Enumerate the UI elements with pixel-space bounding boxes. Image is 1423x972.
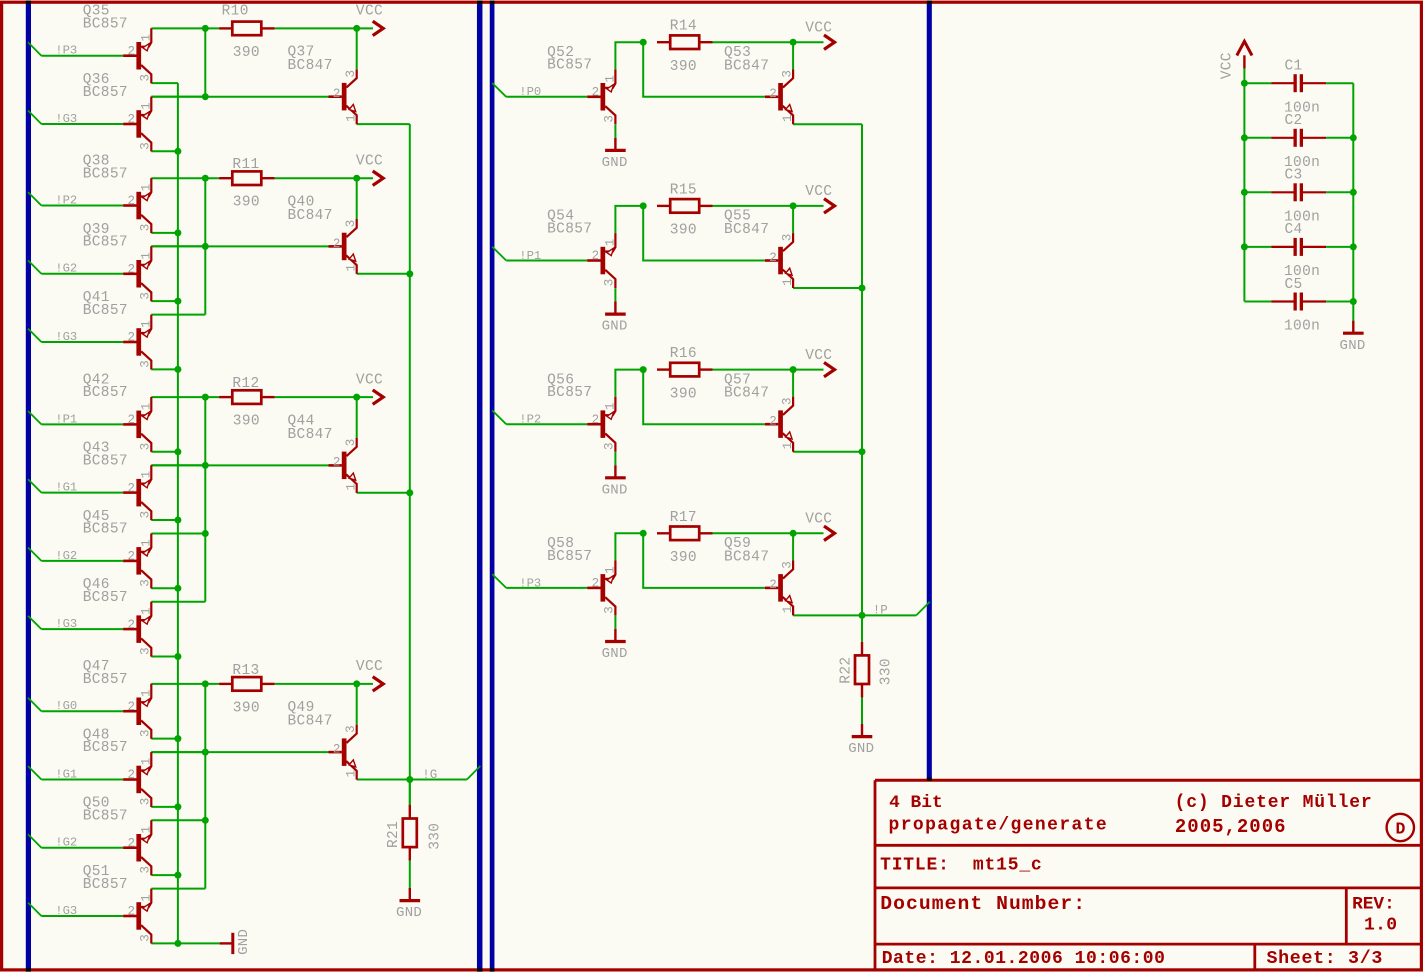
svg-text:GND: GND: [236, 929, 252, 955]
wire R21 to GND: [409, 861, 411, 888]
svg-text:3: 3: [139, 142, 153, 150]
logo circled D: [1387, 814, 1414, 841]
svg-text:R10: R10: [222, 4, 249, 20]
svg-text:3: 3: [139, 647, 153, 655]
wire Q49 base: [151, 751, 328, 753]
transistor Q59 (BC847 NPN): [765, 561, 793, 616]
R15 value label 390: [670, 223, 697, 239]
svg-text:3: 3: [780, 397, 794, 405]
svg-text:1: 1: [781, 114, 795, 122]
title text (c) Dieter Mueller: [1175, 793, 1373, 813]
svg-text:GND: GND: [396, 905, 422, 921]
junction ground rail at Q42.3: [174, 448, 181, 455]
title block frame: [875, 780, 1421, 970]
wire output rail !G (x410): [409, 124, 411, 805]
junction ground rail at Q51.3: [174, 940, 181, 947]
svg-text:3: 3: [344, 439, 358, 447]
wire R17 to VCC node: [713, 532, 794, 534]
svg-text:2: 2: [128, 905, 136, 919]
transistor Q35 (BC857 PNP): [123, 28, 151, 83]
Q43 labels: [83, 441, 128, 470]
Q42 pin numbers: [128, 403, 154, 451]
wire Q49.3 to VCC: [356, 684, 358, 725]
C5 value label 100n: [1284, 319, 1320, 335]
Q35 pin numbers: [128, 34, 154, 82]
wire Q38.1 to R11: [151, 177, 219, 179]
Q52 pin numbers: [592, 75, 618, 123]
resistor R21: [403, 805, 417, 861]
svg-text:1: 1: [139, 471, 153, 479]
svg-text:VCC: VCC: [805, 20, 832, 36]
svg-text:VCC: VCC: [1219, 52, 1235, 79]
wire Q48.1: [151, 751, 205, 753]
wire !P to bus tap: [862, 614, 916, 616]
svg-text:BC857: BC857: [83, 235, 128, 251]
wire net !G3 to Q41.2: [41, 341, 123, 343]
Q46 pin numbers: [128, 607, 154, 655]
transistor Q40 (BC847 NPN): [329, 219, 357, 274]
wire Q40 base: [151, 245, 328, 247]
wire net !P3 to Q35.2: [41, 55, 123, 57]
wire R15 node down to Q55 base: [643, 206, 765, 261]
svg-text:Sheet: 3/3: Sheet: 3/3: [1267, 949, 1384, 969]
resistor R10: [219, 22, 275, 36]
svg-text:BC847: BC847: [724, 549, 769, 565]
svg-text:!G: !G: [422, 768, 437, 782]
svg-text:2: 2: [128, 768, 136, 782]
svg-text:BC857: BC857: [83, 453, 128, 469]
svg-text:2: 2: [128, 194, 136, 208]
wire Q37.3 to VCC: [356, 28, 358, 69]
wire Q42.1 to R12: [151, 396, 219, 398]
svg-text:1: 1: [139, 607, 153, 615]
Q44 labels: [288, 413, 333, 443]
Q36 pin numbers: [128, 102, 154, 150]
svg-text:BC847: BC847: [724, 222, 769, 238]
Q46 labels: [83, 577, 128, 606]
svg-text:R12: R12: [232, 376, 259, 392]
resistor R17: [657, 527, 713, 541]
transistor Q44 (BC847 NPN): [329, 438, 357, 493]
wire Q53.1 to output rail: [793, 123, 862, 125]
VCC label at R13: [356, 659, 383, 675]
svg-text:2: 2: [333, 742, 341, 756]
transistor Q54 (BC857 PNP): [587, 233, 615, 288]
net label !G1: [55, 481, 77, 495]
junction at R12 left: [202, 394, 209, 401]
wire Q50.3 to ground rail: [151, 874, 178, 876]
svg-text:390: 390: [233, 414, 260, 430]
net label !G1: [55, 767, 77, 781]
resistor R12: [219, 390, 275, 404]
wire C5 right to GND: [1352, 302, 1354, 321]
svg-text:!G2: !G2: [55, 836, 77, 850]
R21 name label: [386, 821, 402, 848]
bus/frame overlap ticks: [26, 1, 932, 972]
C4 name label: [1285, 222, 1303, 238]
Q42 labels: [83, 372, 128, 401]
R13 value label 390: [233, 700, 260, 716]
Q56 pin numbers: [592, 402, 618, 450]
title text Date: 12.01.2006 10:06:00: [882, 949, 1166, 969]
VCC label at R11: [356, 154, 383, 170]
wire Q39.3 to ground rail: [151, 300, 178, 302]
svg-text:2: 2: [128, 262, 136, 276]
wire net !G3 to Q51.2: [41, 915, 123, 917]
wire Q36.3 to ground rail: [151, 150, 178, 152]
svg-text:1: 1: [139, 758, 153, 766]
junction ground rail at Q46.3: [174, 653, 181, 660]
svg-text:2: 2: [128, 44, 136, 58]
wire Q49.1 to output rail: [357, 779, 410, 781]
svg-text:VCC: VCC: [805, 184, 832, 200]
svg-text:BC847: BC847: [288, 427, 333, 443]
bus tap for net !G2: [28, 834, 41, 847]
svg-text:2: 2: [333, 237, 341, 251]
svg-text:3: 3: [603, 115, 617, 123]
R17 name label: [670, 510, 697, 526]
VCC label at R16: [805, 348, 832, 364]
bus tap for net !P2: [492, 410, 506, 424]
Q37 labels: [288, 45, 333, 74]
svg-text:3: 3: [139, 360, 153, 368]
svg-text:2: 2: [128, 113, 136, 127]
wire output rail !P (x862): [861, 124, 863, 642]
svg-text:BC847: BC847: [724, 386, 769, 402]
svg-text:R22: R22: [838, 657, 854, 684]
net label !P2: [55, 193, 77, 207]
wire Q40.1 to output rail: [357, 273, 410, 275]
svg-text:2: 2: [128, 331, 136, 345]
svg-text:R11: R11: [232, 157, 259, 173]
Q41 pin numbers: [128, 320, 154, 368]
svg-text:GND: GND: [848, 741, 874, 757]
resistor R13: [219, 677, 275, 691]
title text Document Number:: [880, 893, 1086, 915]
junction ground rail at Q48.3: [174, 803, 181, 810]
svg-text:1: 1: [781, 442, 795, 450]
bus B2b (input bus middle section): [490, 1, 495, 972]
svg-text:2: 2: [128, 550, 136, 564]
net label !G3: [55, 904, 77, 918]
VCC symbol at R14: [793, 35, 834, 49]
VCC symbol at R16: [793, 362, 834, 376]
junction Q37 base node: [202, 93, 209, 100]
transistor Q56 (BC857 PNP): [587, 397, 615, 452]
Q55 labels: [724, 209, 769, 238]
svg-text:C5: C5: [1285, 277, 1303, 293]
svg-text:GND: GND: [602, 319, 628, 335]
bus tap for net !G1: [28, 766, 41, 779]
svg-text:1: 1: [603, 566, 617, 574]
ground GND below Q58: [602, 629, 628, 662]
ground GND below Q56: [602, 465, 628, 498]
transistor Q38 (BC857 PNP): [123, 178, 151, 233]
junction at R13 VCC node: [353, 680, 360, 687]
Q58 labels: [547, 536, 592, 565]
junction output rail at Q44.1: [406, 489, 413, 496]
capacitor C5: [1244, 293, 1353, 311]
svg-text:BC857: BC857: [83, 809, 128, 825]
svg-text:R17: R17: [670, 510, 697, 526]
R10 name label: [222, 4, 249, 20]
wire capacitor bank right rail: [1352, 83, 1354, 301]
junction at R11 VCC node: [353, 175, 360, 182]
junction at Q45.1: [202, 530, 209, 537]
wire Q54.3 to GND: [614, 288, 616, 301]
net label !P: [873, 604, 888, 618]
svg-text:390: 390: [233, 195, 260, 211]
svg-text:1: 1: [345, 264, 359, 272]
transistor Q51 (BC857 PNP): [123, 889, 151, 944]
Q50 pin numbers: [128, 826, 154, 874]
wire net !P1 to Q42.2: [41, 423, 123, 425]
ground GND at Q51.3 (rotated): [220, 929, 253, 955]
svg-text:!G3: !G3: [55, 617, 77, 631]
wire net !G0 to Q47.2: [41, 710, 123, 712]
bus tap for net !G0: [28, 698, 41, 711]
svg-text:3: 3: [603, 606, 617, 614]
R17 value label 390: [670, 550, 697, 566]
svg-text:1: 1: [139, 403, 153, 411]
VCC symbol at R17: [793, 526, 834, 540]
VCC symbol at R15: [793, 199, 834, 213]
junction output rail at Q59.1 (!P node): [859, 612, 866, 619]
svg-text:C1: C1: [1285, 59, 1303, 75]
junction Q40 base node: [202, 243, 209, 250]
svg-text:2: 2: [592, 577, 600, 591]
Q55 pin numbers: [769, 234, 795, 286]
C5 name label: [1285, 277, 1303, 293]
wire Q56.1 up to R16 node: [615, 370, 643, 397]
wire Q58.3 to GND: [614, 616, 616, 629]
junction R16 left node: [640, 366, 647, 373]
transistor Q58 (BC857 PNP): [587, 561, 615, 616]
wire R14 node down to Q53 base: [643, 42, 765, 97]
R11 name label: [232, 157, 259, 173]
capacitor C1: [1244, 74, 1353, 92]
transistor Q55 (BC847 NPN): [765, 233, 793, 288]
VCC label at R14: [805, 20, 832, 36]
svg-text:BC857: BC857: [547, 549, 592, 565]
wire R10 node rail (x205) from R10 to Q37 base: [204, 28, 206, 96]
bus tap for net !P2: [28, 192, 41, 205]
Q39 pin numbers: [128, 252, 154, 300]
svg-text:2: 2: [128, 618, 136, 632]
svg-text:2: 2: [592, 413, 600, 427]
Q56 labels: [547, 372, 592, 401]
R21 value label 330: [427, 823, 443, 850]
svg-text:C4: C4: [1285, 222, 1303, 238]
svg-text:BC847: BC847: [288, 208, 333, 224]
svg-text:BC857: BC857: [83, 85, 128, 101]
C2 name label: [1285, 113, 1303, 129]
net label !P1: [55, 412, 77, 426]
svg-text:3: 3: [139, 224, 153, 232]
svg-text:BC857: BC857: [83, 303, 128, 319]
svg-text:4 Bit: 4 Bit: [889, 793, 943, 813]
svg-text:VCC: VCC: [805, 348, 832, 364]
net label !P3: [519, 576, 541, 590]
wire Q51.1: [151, 888, 205, 890]
Q53 labels: [724, 45, 769, 74]
svg-text:!P2: !P2: [55, 193, 77, 207]
Q48 pin numbers: [128, 758, 154, 806]
Q52 labels: [547, 45, 592, 74]
wire net !G2 to Q39.2: [41, 273, 123, 275]
resistor R15: [657, 199, 713, 213]
svg-text:BC857: BC857: [547, 58, 592, 74]
bus B1 (left input bus): [26, 1, 31, 972]
svg-text:2: 2: [128, 481, 136, 495]
R10 value label 390: [233, 45, 260, 61]
bus tap for net !G: [467, 766, 481, 780]
transistor Q41 (BC857 PNP): [123, 315, 151, 370]
svg-text:1: 1: [345, 114, 359, 122]
junction R16 VCC node: [790, 366, 797, 373]
bus tap for net !G3: [28, 329, 41, 342]
VCC label at R10: [356, 4, 383, 20]
svg-text:1: 1: [345, 770, 359, 778]
Q53 pin numbers: [769, 70, 795, 122]
junction R17 left node: [640, 530, 647, 537]
C4 value label 100n: [1284, 264, 1320, 280]
bus tap for net !P3: [28, 42, 41, 55]
wire R22 to GND: [861, 698, 863, 724]
junction right rail at C5: [1350, 298, 1357, 305]
svg-text:!G3: !G3: [55, 904, 77, 918]
wire net !G1 to Q43.2: [41, 492, 123, 494]
bus tap for net !G3: [28, 903, 41, 916]
svg-text:1: 1: [603, 402, 617, 410]
wire Q52.3 to GND: [614, 124, 616, 137]
wire Q41.1: [151, 314, 205, 316]
Q54 labels: [547, 209, 592, 238]
wire Q43.1: [151, 464, 205, 466]
svg-text:3: 3: [780, 70, 794, 78]
junction output rail at Q40.1: [406, 270, 413, 277]
transistor Q37 (BC847 NPN): [329, 69, 357, 124]
svg-text:(c) Dieter Müller: (c) Dieter Müller: [1175, 793, 1373, 813]
title text 1.0: [1364, 916, 1397, 936]
wire net !G1 to Q48.2: [41, 779, 123, 781]
svg-text:C3: C3: [1285, 168, 1303, 184]
svg-text:3: 3: [603, 279, 617, 287]
junction at R13 left: [202, 680, 209, 687]
junction ground rail at Q39.3: [174, 298, 181, 305]
wire R11 node rail (x205) from R11 to Q40 base: [204, 178, 206, 314]
bus tap for net !G3: [28, 111, 41, 125]
junction left rail at C2: [1241, 134, 1248, 141]
transistor Q46 (BC857 PNP): [123, 602, 151, 657]
svg-text:BC857: BC857: [547, 221, 592, 237]
svg-text:!G1: !G1: [55, 767, 77, 781]
svg-text:BC857: BC857: [83, 740, 128, 756]
Q44 pin numbers: [333, 439, 359, 491]
title text Sheet: 3/3: [1267, 949, 1384, 969]
svg-text:1: 1: [139, 689, 153, 697]
junction ground rail at Q50.3: [174, 872, 181, 879]
svg-text:BC857: BC857: [83, 385, 128, 401]
svg-text:3: 3: [344, 220, 358, 228]
title text 2005,2006: [1175, 816, 1287, 838]
junction Q44 base node: [202, 462, 209, 469]
bus tap for net !P0: [492, 83, 506, 97]
wire net !G3 to Q46.2: [41, 628, 123, 630]
ground GND below Q52: [602, 138, 628, 171]
svg-text:propagate/generate: propagate/generate: [889, 815, 1109, 835]
Q54 pin numbers: [592, 239, 618, 287]
C3 name label: [1285, 168, 1303, 184]
wire Q53.3 to VCC node: [792, 42, 794, 69]
wire net !P2 to Q38.2: [41, 205, 123, 207]
svg-text:!G1: !G1: [55, 481, 77, 495]
svg-text:390: 390: [670, 223, 697, 239]
Q47 labels: [83, 659, 128, 688]
bus tap for net !P1: [492, 247, 506, 261]
title text TITLE: mt15_c: [880, 856, 1042, 876]
net label !G3: [55, 112, 77, 126]
transistor Q43 (BC857 PNP): [123, 465, 151, 520]
net label !G2: [55, 836, 77, 850]
capacitor C2: [1244, 129, 1353, 147]
wire R12 node rail (x205) from R12 to Q44 base: [204, 397, 206, 602]
svg-text:!P1: !P1: [55, 412, 77, 426]
wire Q47.1 to R13: [151, 683, 219, 685]
junction at R10 left: [202, 25, 209, 32]
net label !G0: [55, 699, 77, 713]
junction output rail at Q57.1: [859, 448, 866, 455]
svg-text:Date: 12.01.2006 10:06:00: Date: 12.01.2006 10:06:00: [882, 949, 1166, 969]
junction ground rail at Q38.3: [174, 229, 181, 236]
svg-text:BC847: BC847: [724, 58, 769, 74]
VCC symbol at R10: [357, 21, 384, 35]
wire Q43.3 to ground rail: [151, 519, 178, 521]
wire Q46.1: [151, 601, 205, 603]
svg-text:3: 3: [344, 725, 358, 733]
svg-text:1: 1: [139, 102, 153, 110]
wire Q38.3 to ground rail: [151, 232, 178, 234]
junction ground rail at Q36.3: [174, 148, 181, 155]
wire net !P0 to Q52.2: [506, 96, 587, 98]
svg-text:1.0: 1.0: [1364, 916, 1397, 936]
svg-text:GND: GND: [1340, 338, 1366, 354]
wire net !G2 to Q45.2: [41, 560, 123, 562]
wire R15 to VCC node: [713, 205, 794, 207]
junction R15 VCC node: [790, 202, 797, 209]
wire Q45.1: [151, 533, 205, 535]
svg-text:100n: 100n: [1284, 319, 1320, 335]
Q49 labels: [288, 700, 333, 730]
junction left rail at C1: [1241, 80, 1248, 87]
C1 value label 100n: [1284, 100, 1320, 116]
svg-text:2: 2: [769, 415, 777, 429]
transistor Q50 (BC857 PNP): [123, 820, 151, 875]
net label !G3: [55, 330, 77, 344]
net label !P2: [519, 413, 541, 427]
svg-text:1: 1: [139, 826, 153, 834]
bus tap for net !G2: [28, 260, 41, 273]
wire Q37.1 to output rail: [357, 123, 410, 125]
title text 4 Bit: [889, 793, 943, 813]
VCC label at R12: [356, 372, 383, 388]
Q59 labels: [724, 536, 769, 565]
Q50 labels: [83, 796, 128, 825]
svg-text:!P: !P: [873, 604, 888, 618]
net label !G2: [55, 262, 77, 276]
Q40 pin numbers: [333, 220, 359, 272]
svg-text:3: 3: [139, 511, 153, 519]
